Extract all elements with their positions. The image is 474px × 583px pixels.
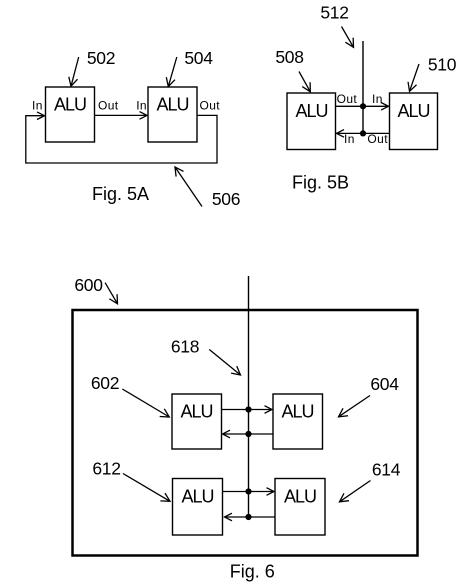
label 510: [410, 55, 457, 92]
label 604: [339, 374, 400, 417]
ALU U504: [148, 87, 197, 142]
ALU U614: [275, 479, 325, 536]
svg-text:512: 512: [320, 3, 348, 23]
svg-text:618: 618: [171, 337, 199, 357]
wire 612 Out to 614 In: [223, 491, 275, 493]
label 614: [340, 460, 401, 502]
ALU U508: [287, 93, 336, 150]
svg-text:ALU: ALU: [156, 95, 188, 115]
bus line 512: [362, 41, 364, 133]
label 618: [171, 337, 241, 376]
svg-text:506: 506: [212, 189, 240, 209]
svg-text:ALU: ALU: [284, 487, 316, 507]
wire 510 Out to 508 In: [337, 132, 390, 134]
svg-text:In: In: [32, 99, 43, 113]
junction dot (618 at 612 out): [245, 488, 251, 494]
svg-text:502: 502: [87, 48, 115, 68]
label 504: [168, 48, 213, 87]
svg-text:In: In: [344, 132, 355, 146]
wire 614 Out to 612 In: [225, 516, 276, 518]
wire 508 Out to 510 In: [336, 105, 389, 107]
label 602: [91, 373, 169, 417]
svg-text:Fig. 5A: Fig. 5A: [92, 184, 149, 204]
label 600: [74, 275, 117, 304]
wire 602 Out to 604 In: [222, 409, 273, 411]
svg-text:ALU: ALU: [180, 402, 212, 422]
junction dot (512 bottom): [360, 130, 366, 136]
svg-text:Fig. 5B: Fig. 5B: [292, 172, 349, 192]
svg-text:604: 604: [370, 374, 399, 394]
feedback wire 506: [26, 115, 217, 163]
svg-text:In: In: [372, 92, 383, 106]
enclosure 600: [73, 310, 418, 556]
label 612: [92, 459, 170, 502]
svg-text:ALU: ALU: [397, 101, 429, 121]
svg-text:ALU: ALU: [295, 101, 327, 121]
junction dot (618 at 612 in): [245, 514, 251, 520]
svg-text:614: 614: [372, 460, 401, 480]
svg-text:504: 504: [184, 48, 213, 68]
svg-text:Out: Out: [200, 99, 221, 113]
label 508: [275, 47, 310, 92]
svg-text:In: In: [136, 99, 147, 113]
bus line 618: [248, 276, 250, 517]
svg-text:Out: Out: [337, 92, 358, 106]
svg-text:508: 508: [275, 47, 303, 67]
svg-text:612: 612: [92, 459, 120, 479]
svg-text:Out: Out: [367, 132, 388, 146]
label 506: [175, 167, 240, 209]
svg-text:600: 600: [74, 275, 103, 295]
ALU U602: [172, 394, 222, 449]
svg-text:Out: Out: [98, 99, 119, 113]
ALU U604: [273, 394, 323, 449]
ALU U510: [390, 93, 438, 150]
svg-text:ALU: ALU: [181, 487, 213, 507]
junction dot (618 at 602 in): [245, 431, 251, 437]
ALU U612: [173, 479, 223, 536]
svg-text:602: 602: [91, 373, 119, 393]
svg-text:510: 510: [428, 55, 457, 75]
label 502: [71, 48, 115, 86]
ALU U502: [46, 87, 95, 142]
svg-text:ALU: ALU: [281, 402, 313, 422]
wire 604 Out to 602 In: [223, 433, 274, 435]
junction dot (618 at 602 out): [245, 406, 251, 412]
svg-text:Fig. 6: Fig. 6: [230, 562, 275, 582]
wire 502 Out to 504 In: [95, 114, 148, 116]
label 512: [320, 3, 353, 48]
junction dot (512 top): [360, 103, 366, 109]
svg-text:ALU: ALU: [54, 95, 86, 115]
